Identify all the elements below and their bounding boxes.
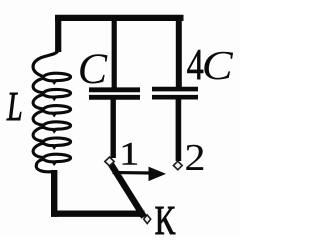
arrow from 1 toward 2 (shaft)	[113, 171, 152, 175]
wire bottom horizontal	[51, 210, 145, 216]
svg-text:C: C	[78, 44, 108, 93]
svg-text:2: 2	[184, 136, 205, 179]
capacitor C bottom plate	[89, 95, 140, 100]
svg-text:C: C	[202, 42, 234, 88]
capacitor 4C bottom plate	[152, 95, 198, 100]
node 1 terminal diamond	[105, 157, 114, 166]
node 2 terminal diamond	[173, 161, 182, 170]
wire left vertical bottom	[51, 170, 57, 217]
wire left vertical top	[55, 15, 61, 52]
switch pivot K diamond	[144, 215, 151, 224]
arrow head	[149, 167, 167, 182]
svg-text:К: К	[155, 198, 176, 238]
svg-text:L: L	[6, 84, 22, 129]
inductor L coil	[33, 46, 71, 175]
wire below C to node 1	[110, 99, 115, 158]
wire top horizontal	[55, 15, 184, 21]
wire middle vertical to capacitor C	[112, 15, 117, 88]
wire below 4C to node 2	[176, 99, 182, 161]
svg-text:1: 1	[119, 136, 139, 172]
switch blade K from node 1 to bottom wire	[111, 164, 145, 218]
capacitor C top plate	[89, 87, 140, 92]
wire right vertical to capacitor 4C	[176, 15, 182, 87]
capacitor 4C top plate	[152, 87, 198, 92]
